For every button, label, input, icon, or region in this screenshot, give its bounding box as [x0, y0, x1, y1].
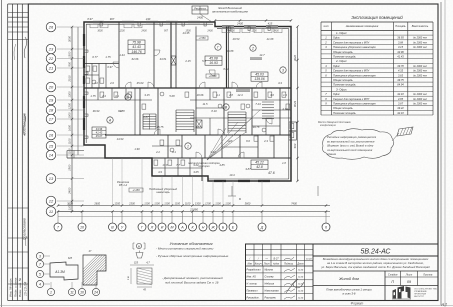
- windows in bottom wall: [214, 179, 226, 181]
- svg-text:П: П: [391, 280, 394, 284]
- svg-text:12.24: 12.24: [298, 269, 304, 272]
- svg-text:Столяр: Столяр: [265, 276, 275, 279]
- svg-text:Полезная площадь: Полезная площадь: [333, 83, 356, 87]
- svg-text:1100: 1100: [215, 201, 221, 205]
- svg-text:1500: 1500: [68, 51, 72, 58]
- handwritten marks in strip: [24, 37, 27, 58]
- svg-text:2400: 2400: [236, 22, 243, 26]
- svg-text:Площадь: Площадь: [395, 25, 406, 28]
- svg-text:3.1: 3.1: [115, 94, 119, 98]
- svg-text:8.97: 8.97: [87, 17, 93, 21]
- svg-text:3600: 3600: [97, 30, 103, 33]
- svg-text:до 2000 чел: до 2000 чел: [413, 74, 427, 77]
- svg-text:45.08: 45.08: [209, 57, 218, 61]
- svg-text:до 2000 чел: до 2000 чел: [413, 46, 427, 49]
- svg-text:1100: 1100: [185, 201, 191, 205]
- svg-text:39.78: 39.78: [397, 64, 404, 68]
- svg-text:64.94: 64.94: [397, 83, 404, 87]
- svg-text:1200: 1200: [119, 30, 125, 33]
- svg-text:3.05: 3.05: [193, 170, 199, 174]
- callout at top: [192, 6, 208, 14]
- svg-text:до 2000 чел: до 2000 чел: [413, 103, 427, 106]
- right protrusion rooms: [289, 122, 297, 131]
- svg-text:14.7: 14.7: [259, 53, 265, 57]
- svg-text:РВ 1-2: РВ 1-2: [119, 183, 128, 187]
- svg-text:Новоторова: Новоторова: [265, 289, 280, 292]
- pier stubs along top wall: [100, 22, 102, 26]
- svg-text:49.22: 49.22: [397, 106, 404, 110]
- svg-text:Офис: Офис: [333, 92, 341, 96]
- entrance porch lower-left: [67, 150, 84, 152]
- svg-text:36.93: 36.93: [93, 109, 100, 113]
- svg-text:1100: 1100: [225, 201, 231, 205]
- revision cloud note: [322, 129, 393, 160]
- revision flag: [397, 127, 413, 136]
- svg-text:до 2000 чел: до 2000 чел: [413, 70, 427, 73]
- svg-text:12.4: 12.4: [237, 93, 243, 97]
- svg-text:1200: 1200: [205, 201, 211, 205]
- svg-text:16: 16: [49, 133, 54, 138]
- svg-text:5.9: 5.9: [202, 59, 206, 63]
- svg-text:1- Офис: 1- Офис: [336, 31, 347, 35]
- svg-text:75.98: 75.98: [132, 41, 141, 45]
- svg-text:Д: Д: [260, 225, 264, 229]
- svg-text:2.3: 2.3: [263, 139, 268, 143]
- svg-text:41.43: 41.43: [132, 45, 141, 49]
- site plan detail: [50, 262, 78, 280]
- svg-text:до 2000 чел: до 2000 чел: [413, 65, 427, 68]
- svg-text:19: 19: [49, 98, 54, 103]
- svg-text:2.0: 2.0: [109, 81, 114, 85]
- svg-text:1600: 1600: [68, 124, 72, 131]
- svg-text:Инж. АО: Инж. АО: [247, 276, 256, 279]
- svg-text:43.96: 43.96: [397, 50, 404, 54]
- svg-text:2400: 2400: [68, 187, 72, 195]
- svg-text:ул. Барки Васильев, 4-м крайне: ул. Барки Васильев, 4-м крайне ожидаемой…: [320, 265, 430, 269]
- svg-text:14: 14: [49, 153, 54, 158]
- svg-text:13: 13: [49, 176, 54, 181]
- svg-text:11: 11: [49, 209, 53, 214]
- svg-text:2400: 2400: [196, 16, 203, 20]
- svg-text:5: 5: [39, 272, 41, 276]
- svg-text:1200: 1200: [251, 30, 257, 33]
- svg-text:20: 20: [48, 85, 54, 90]
- svg-text:16.88: 16.88: [227, 49, 234, 53]
- closet dashes under top wall: [222, 29, 230, 33]
- svg-text:8.02: 8.02: [223, 67, 229, 71]
- svg-text:Руководит.: Руководит.: [247, 296, 260, 299]
- right dimension chain: [297, 27, 299, 182]
- svg-text:А: А: [180, 225, 184, 229]
- stair flight hatch 3: [262, 101, 274, 103]
- windows in left wall: [82, 34, 84, 46]
- title block frame: [246, 244, 439, 301]
- svg-text:на 1-м этаже В застройке жилог: на 1-м этаже В застройке жилого района, …: [327, 261, 424, 265]
- svg-text:4.33: 4.33: [398, 69, 404, 73]
- svg-text:7.7: 7.7: [176, 163, 180, 167]
- top dimension line: [215, 20, 291, 22]
- svg-text:М: М: [171, 225, 174, 229]
- svg-text:4.85: 4.85: [398, 97, 404, 101]
- svg-text:17: 17: [49, 117, 54, 122]
- svg-text:Инв. № подл.: Инв. № подл.: [9, 278, 13, 297]
- svg-text:3622: 3622: [293, 54, 297, 61]
- svg-text:42.8: 42.8: [256, 165, 263, 169]
- svg-text:1100: 1100: [144, 201, 150, 205]
- svg-text:А1-3М: А1-3М: [54, 270, 65, 274]
- svg-text:907: 907: [164, 30, 169, 33]
- svg-text:- Декоративный элемент, распол: - Декоративный элемент, расположенный: [162, 276, 223, 280]
- svg-text:Помещение уборочного инвентаря: Помещение уборочного инвентаря: [333, 73, 376, 77]
- svg-text:2600: 2600: [93, 201, 100, 205]
- svg-text:+0.000: +0.000: [209, 75, 217, 78]
- svg-text:Офис: Офис: [333, 64, 341, 68]
- svg-text:2.87: 2.87: [142, 115, 149, 119]
- svg-text:до 2000 чел: до 2000 чел: [413, 93, 427, 96]
- svg-text:36.93: 36.93: [397, 36, 404, 40]
- svg-text:22: 22: [48, 56, 54, 61]
- svg-text:2.8: 2.8: [228, 93, 233, 97]
- svg-text:-2.280: -2.280: [132, 188, 140, 192]
- svg-text:Кол.уч: Кол.уч: [255, 263, 263, 265]
- svg-text:/: /: [257, 256, 259, 260]
- title block: signature columns: [253, 244, 255, 266]
- svg-text:1.2: 1.2: [94, 81, 98, 85]
- rooms band y135-158: [167, 135, 169, 158]
- door swing arcs: [125, 82, 131, 88]
- title block: logo: [392, 286, 411, 299]
- svg-text:41.43: 41.43: [397, 55, 404, 59]
- svg-text:4.1: 4.1: [216, 93, 220, 97]
- svg-text:1100: 1100: [174, 201, 180, 205]
- svg-text:Общая площадь: Общая площадь: [333, 50, 353, 54]
- svg-text:21.08: 21.08: [266, 37, 274, 41]
- svg-text:УПРАВЛЕНИЕ: УПРАВЛЕНИЕ: [414, 290, 427, 293]
- left dimension chain: [71, 27, 73, 212]
- svg-text:до 2000 чел: до 2000 чел: [413, 41, 427, 44]
- svg-text:И: И: [161, 225, 164, 229]
- svg-text:Стадия: Стадия: [388, 274, 398, 277]
- svg-text:39.78: 39.78: [253, 125, 260, 129]
- area box left room: [92, 127, 106, 138]
- svg-text:Согласовано: Согласовано: [23, 218, 27, 240]
- svg-text:41.43: 41.43: [96, 131, 103, 135]
- svg-text:5.08: 5.08: [169, 94, 175, 98]
- svg-text:под плиткой Высота задана См п: под плиткой Высота задана См п. 16: [165, 281, 219, 285]
- sanitary fixtures: [86, 66, 90, 71]
- title block: doc number 5В.24-АС: [313, 255, 438, 257]
- svg-text:3.15: 3.15: [144, 93, 150, 97]
- svg-text:2- Офис: 2- Офис: [335, 59, 347, 63]
- title block: stage/sheet grid: [384, 271, 386, 301]
- svg-text:3800: 3800: [245, 201, 251, 205]
- svg-text:3600: 3600: [67, 201, 73, 205]
- svg-text:1100: 1100: [164, 201, 170, 205]
- svg-text:10.24: 10.24: [306, 257, 312, 260]
- svg-text:10.4: 10.4: [229, 173, 235, 177]
- svg-text:45.22: 45.22: [255, 161, 264, 165]
- svg-text:15.75: 15.75: [157, 125, 164, 129]
- svg-text:1900: 1900: [68, 164, 72, 171]
- svg-text:№пп: №пп: [323, 25, 329, 28]
- svg-text:3000: 3000: [68, 35, 72, 42]
- small rooms band y88-135: [139, 88, 141, 135]
- legend symbol 1: [136, 243, 141, 248]
- svg-text:4.85: 4.85: [219, 163, 225, 167]
- svg-text:4.9: 4.9: [158, 170, 162, 174]
- svg-text:1 м: 1 м: [127, 276, 130, 280]
- svg-text:2400: 2400: [272, 30, 279, 33]
- svg-text:Полезная площадь: Полезная площадь: [333, 55, 356, 59]
- svg-text:Распоряж.: Распоряж.: [265, 296, 277, 299]
- svg-text:240: 240: [145, 17, 151, 21]
- room number circles in plan: [215, 44, 221, 50]
- svg-text:Ж: Ж: [210, 225, 215, 229]
- radiator bars right rooms: [250, 57, 262, 59]
- svg-text:10: 10: [80, 290, 84, 294]
- svg-text:2.87: 2.87: [194, 125, 201, 129]
- svg-text:2.4: 2.4: [101, 94, 106, 98]
- rooms band y158-181: [164, 158, 166, 176]
- svg-text:подпорки: подпорки: [198, 164, 210, 168]
- svg-text:62.06: 62.06: [132, 57, 139, 61]
- svg-text:Лист: Лист: [263, 263, 270, 265]
- svg-text:Общая площадь: Общая площадь: [333, 78, 353, 82]
- svg-text:1: 1: [187, 144, 189, 148]
- svg-text:18: 18: [49, 108, 54, 113]
- room area label boxes: [128, 40, 145, 54]
- svg-text:47.6: 47.6: [268, 171, 275, 175]
- legend symbol 2: [136, 253, 143, 259]
- svg-text:7.24: 7.24: [255, 102, 261, 106]
- svg-text:1300: 1300: [195, 201, 201, 205]
- svg-text:Общая площадь: Общая площадь: [333, 106, 353, 110]
- svg-text:8.10: 8.10: [211, 109, 217, 113]
- bottom dimension lines: [58, 205, 330, 207]
- svg-text:Листов: Листов: [422, 274, 433, 277]
- svg-text:конфискации: конфискации: [320, 123, 337, 127]
- svg-text:7400: 7400: [291, 201, 297, 205]
- svg-text:6.77: 6.77: [92, 55, 98, 59]
- svg-text:1100: 1100: [68, 138, 72, 144]
- svg-text:1.90: 1.90: [134, 147, 140, 151]
- svg-text:10: 10: [80, 225, 84, 229]
- svg-text:15: 15: [49, 144, 54, 149]
- svg-text:6.2: 6.2: [118, 109, 122, 113]
- svg-text:Н. контр.: Н. контр.: [247, 282, 258, 285]
- svg-text:1: 1: [50, 290, 52, 294]
- svg-text:4: 4: [39, 282, 41, 286]
- svg-text:09: 09: [407, 280, 411, 284]
- svg-text:21: 21: [48, 66, 53, 71]
- svg-text:16.93: 16.93: [209, 61, 218, 65]
- svg-text:2: 2: [251, 46, 254, 50]
- svg-text:1.75: 1.75: [105, 55, 111, 59]
- svg-text:42.18: 42.18: [397, 111, 404, 115]
- svg-text:12.1: 12.1: [227, 139, 233, 143]
- svg-text:3.87: 3.87: [245, 167, 251, 171]
- svg-text:—: —: [264, 257, 268, 260]
- svg-text:24: 24: [93, 290, 98, 294]
- svg-text:3- Офис: 3- Офис: [336, 87, 347, 91]
- svg-text:Дата: Дата: [296, 263, 304, 265]
- multi-leader fan: [207, 128, 226, 160]
- svg-text:4,7: 4,7: [146, 262, 150, 265]
- svg-text:1200: 1200: [114, 201, 120, 205]
- svg-text:-1.550: -1.550: [198, 37, 206, 40]
- svg-text:625: 625: [68, 257, 73, 260]
- svg-text:1.75: 1.75: [90, 94, 96, 98]
- svg-text:325: 325: [134, 262, 139, 265]
- svg-text:18.06: 18.06: [197, 93, 204, 97]
- svg-text:Санузел для персонала и МГН: Санузел для персонала и МГН: [333, 69, 369, 73]
- svg-text:3.88: 3.88: [398, 40, 404, 44]
- svg-text:3.87: 3.87: [398, 102, 404, 106]
- svg-text:здания: здания: [326, 152, 336, 156]
- svg-text:Экспликация помещений: Экспликация помещений: [351, 15, 403, 20]
- svg-text:В-27: В-27: [273, 257, 279, 260]
- svg-text:6: 6: [325, 225, 327, 229]
- svg-text:11: 11: [70, 290, 74, 294]
- svg-text:Л: Л: [150, 225, 154, 229]
- svg-text:Б: Б: [239, 197, 241, 201]
- svg-text:45.07: 45.07: [96, 134, 103, 138]
- svg-text:45.03: 45.03: [137, 81, 144, 85]
- svg-text:21890: 21890: [189, 208, 198, 212]
- paper edge marks: [1, 0, 3, 307]
- floor plan: building outer walls: [84, 22, 291, 181]
- svg-text:2.2: 2.2: [155, 150, 160, 154]
- stair flight hatch 1: [176, 109, 194, 111]
- svg-text:Вместимость: Вместимость: [412, 25, 429, 28]
- svg-text:Н: Н: [202, 225, 205, 229]
- windows in top wall: [93, 21, 104, 23]
- svg-text:1.9: 1.9: [283, 93, 287, 97]
- svg-text:8.6: 8.6: [246, 139, 250, 143]
- svg-text:Изм: Изм: [248, 263, 253, 265]
- svg-text:Санузел для персонала и МГН: Санузел для персонала и МГН: [333, 40, 369, 44]
- svg-text:- Ручные обёртые электронные и: - Ручные обёртые электронные информацион…: [156, 254, 229, 258]
- svg-text:43.96: 43.96: [96, 127, 103, 131]
- svg-text:49.75: 49.75: [397, 78, 404, 82]
- svg-text:12.24: 12.24: [298, 276, 304, 279]
- svg-text:2400: 2400: [206, 30, 213, 33]
- svg-text:146.76: 146.76: [131, 50, 141, 54]
- svg-text:12.24: 12.24: [298, 296, 304, 299]
- svg-text:Небосов: Небосов: [265, 282, 275, 285]
- svg-text:45.03: 45.03: [255, 73, 264, 77]
- svg-text:в осях 3-6: в осях 3-6: [343, 292, 356, 296]
- svg-text:29.53: 29.53: [232, 37, 240, 41]
- svg-text:Помещение уборочного инвентаря: Помещение уборочного инвентаря: [333, 102, 376, 106]
- shaft X-braces: [171, 56, 176, 65]
- svg-text:Помещение уборочного инвентаря: Помещение уборочного инвентаря: [333, 45, 376, 49]
- svg-text:1200: 1200: [68, 102, 72, 109]
- svg-text:Подпись: Подпись: [284, 262, 294, 265]
- svg-text:903: 903: [293, 143, 297, 148]
- svg-text:9023: 9023: [293, 100, 297, 107]
- svg-text:3.3: 3.3: [278, 81, 282, 85]
- svg-text:139.06: 139.06: [254, 77, 264, 81]
- svg-text:3: 3: [39, 254, 41, 258]
- svg-text:0.97: 0.97: [107, 65, 113, 69]
- svg-text:4.33: 4.33: [282, 107, 288, 111]
- svg-text:- Место установки спиральной м: - Место установки спиральной машины: [156, 247, 214, 251]
- svg-text:Санузел для персонала и МГН: Санузел для персонала и МГН: [333, 97, 369, 101]
- svg-text:12.24: 12.24: [298, 289, 304, 292]
- svg-text:Проверил: Проверил: [247, 289, 259, 292]
- svg-text:1500: 1500: [185, 30, 191, 33]
- svg-text:1300: 1300: [68, 91, 72, 98]
- svg-text:900: 900: [68, 61, 72, 66]
- svg-text:Условные обозначения: Условные обозначения: [169, 241, 213, 246]
- svg-text:Офис: Офис: [333, 36, 341, 40]
- svg-text:26: 26: [48, 25, 54, 30]
- detail axis circles: [36, 252, 43, 259]
- main interior walls: [84, 87, 291, 89]
- svg-text:2400: 2400: [140, 30, 147, 33]
- svg-text:инвентарь: инвентарь: [156, 191, 170, 194]
- stair flight hatch 2: [228, 111, 246, 113]
- svg-text:1.44: 1.44: [119, 53, 125, 57]
- svg-text:№док: №док: [273, 262, 280, 265]
- svg-text:Жилой дом: Жилой дом: [338, 277, 359, 281]
- svg-text:5В.24-АС: 5В.24-АС: [361, 249, 392, 256]
- svg-text:автономным комбинациям: автономным комбинациям: [212, 10, 248, 14]
- svg-text:14.93: 14.93: [117, 137, 124, 141]
- svg-text:42.18: 42.18: [397, 92, 404, 96]
- svg-text:10-13 /24: 10-13 /24: [24, 282, 28, 296]
- svg-text:7: 7: [39, 262, 41, 266]
- svg-text:3.63: 3.63: [398, 73, 404, 77]
- svg-text:43.81: 43.81: [160, 57, 167, 61]
- svg-text:3: 3: [282, 68, 284, 72]
- svg-text:3.15: 3.15: [398, 45, 404, 49]
- svg-text:3600: 3600: [229, 30, 235, 33]
- svg-text:6.1: 6.1: [172, 150, 176, 154]
- stair flight hatch 0 (left stairwell): [143, 113, 156, 115]
- svg-text:12: 12: [49, 199, 54, 204]
- left WC block partitions: [84, 63, 119, 65]
- svg-text:2300: 2300: [128, 201, 135, 205]
- svg-text:Подп. и дата: Подп. и дата: [13, 277, 17, 297]
- svg-text:до 2000 чел: до 2000 чел: [413, 37, 427, 40]
- svg-text:1100: 1100: [68, 148, 72, 154]
- svg-text:Полезная площадь: Полезная площадь: [333, 111, 356, 115]
- svg-text:907: 907: [110, 17, 115, 21]
- svg-text:17.8: 17.8: [162, 163, 168, 167]
- left attribute strip: [7, 4, 9, 301]
- left axis circles: [46, 22, 56, 32]
- svg-text:Возведение многофункциональног: Возведение многофункционального жилого д…: [323, 257, 429, 261]
- svg-text:1100: 1100: [154, 201, 160, 205]
- svg-text:415: 415: [268, 22, 273, 26]
- svg-text:Мухина: Мухина: [265, 269, 274, 272]
- svg-text:Формат: Формат: [351, 302, 364, 306]
- svg-text:ИНСТИТУТ: ИНСТИТУТ: [414, 296, 425, 298]
- svg-text:23: 23: [48, 47, 54, 52]
- svg-text:ПРОЕКТНЫЙ: ПРОЕКТНЫЙ: [414, 293, 427, 296]
- bottom axis circles: [54, 223, 62, 231]
- svg-text:Наименование помещения: Наименование помещения: [346, 24, 379, 28]
- svg-text:Лист: Лист: [405, 274, 412, 277]
- svg-text:1000: 1000: [68, 112, 72, 119]
- svg-text:1.8: 1.8: [282, 161, 286, 165]
- svg-text:2.15: 2.15: [184, 59, 191, 63]
- svg-text:до 2000 чел: до 2000 чел: [413, 98, 427, 101]
- svg-text:3.6: 3.6: [270, 93, 274, 97]
- svg-text:/: /: [248, 256, 250, 260]
